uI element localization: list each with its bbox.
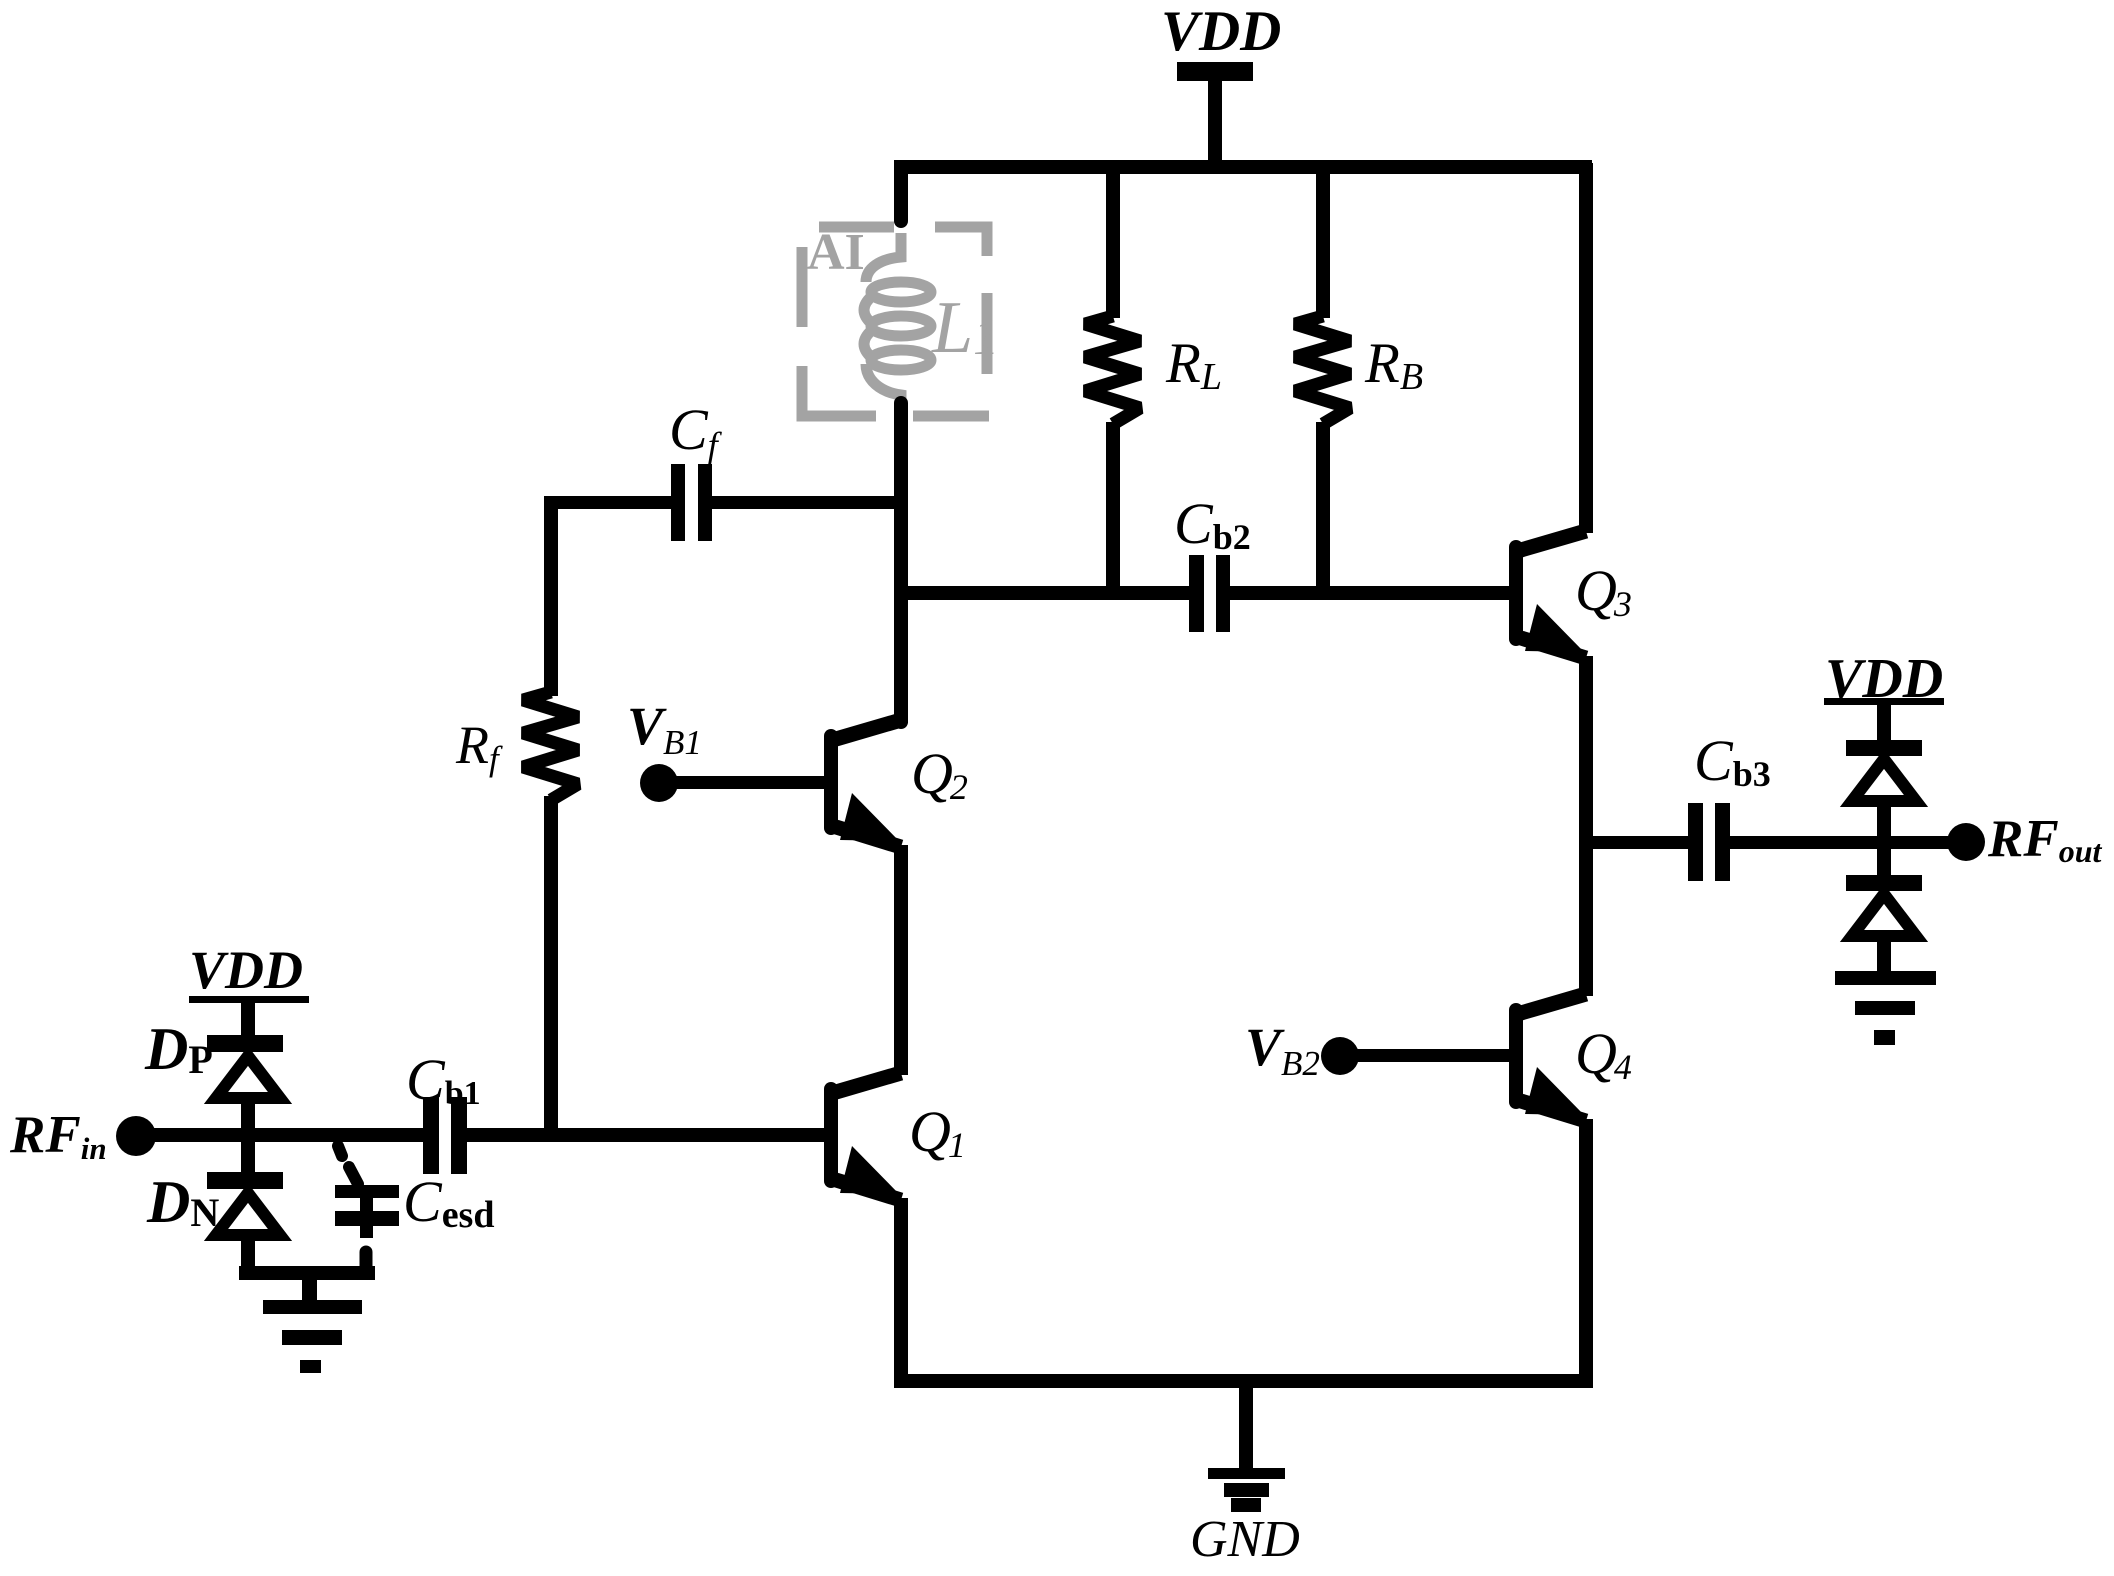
wire Q2 collector up to node A: [894, 593, 908, 723]
diode DP: [207, 1035, 283, 1098]
wire output node to lower diode: [1877, 847, 1891, 879]
capacitor Cb2: [1189, 555, 1230, 632]
wire Cf right to node A: [712, 496, 901, 509]
ground (input): [263, 1300, 362, 1373]
power symbol VDD (T-bar): [1177, 62, 1253, 166]
wire DN to ground wire: [241, 1232, 255, 1272]
wire rail to RB: [1316, 163, 1330, 318]
wire Q3 collector to rail: [1579, 163, 1593, 533]
wire VDD to diode DP: [241, 1003, 255, 1037]
wire Cf junction down to Rf: [544, 496, 558, 696]
wire Cb3 to RFout: [1730, 836, 1966, 849]
wire RFin to Cb1: [151, 1128, 424, 1142]
wire node A to Cb2: [894, 586, 1189, 600]
svg-text:GND: GND: [1190, 1511, 1300, 1568]
wire VB2 to Q4 base: [1353, 1049, 1516, 1062]
wire diode to output node: [1877, 801, 1891, 841]
capacitor Cb1: [423, 1097, 467, 1174]
node VB2 dot: [1321, 1037, 1359, 1075]
wire top rail: [894, 160, 1592, 174]
wire bottom rail: [894, 1374, 1593, 1388]
inductor L1 (gray, optional block): [864, 233, 931, 400]
transistor Q4: [1509, 1003, 1523, 1109]
ground GND: [1208, 1468, 1285, 1512]
wire to ground symbol: [302, 1280, 317, 1302]
wire Rf bottom to input node: [544, 796, 558, 1141]
wire input node to DN: [241, 1140, 255, 1176]
ground (output): [1835, 971, 1936, 1045]
dashed box around L1: [802, 227, 989, 416]
wire RB to mid node: [1316, 422, 1330, 593]
wire Q3 emitter down to Q4 collector: [1579, 656, 1593, 996]
wire Cf left: [544, 496, 671, 509]
node RFout dot: [1947, 823, 1985, 861]
transistor Q1: [824, 1082, 838, 1188]
wire Q1 emitter to bottom rail: [894, 1198, 908, 1384]
wire DP to input node: [241, 1098, 255, 1132]
svg-text:VDD: VDD: [189, 940, 303, 1000]
resistor RB: [1295, 316, 1350, 424]
wire Cb1 to Q1 base: [467, 1128, 831, 1142]
transistor Q2: [824, 729, 838, 835]
power symbol VDD underline (output): [1824, 698, 1944, 705]
wire rail to ground: [1239, 1388, 1253, 1470]
wire diode to ground: [1877, 933, 1891, 974]
resistor RL: [1085, 316, 1140, 424]
wire Q4 emitter to bottom rail: [1579, 1119, 1593, 1384]
wire rail to RL: [1106, 163, 1120, 318]
capacitor Cesd (dashed branch): [335, 1146, 399, 1271]
wire Cb2 to Q3 base: [1230, 586, 1516, 600]
wire ground horizontal: [239, 1266, 375, 1280]
wire rail to L1 top: [894, 170, 908, 221]
node VB1 dot: [640, 764, 678, 802]
capacitor Cb3: [1688, 803, 1730, 881]
power symbol VDD underline (input): [189, 996, 309, 1003]
wire RL to mid node: [1106, 422, 1120, 593]
diode DN: [207, 1172, 283, 1235]
wire VB1 to Q2 base: [672, 776, 831, 789]
diode (output, to VDD): [1846, 740, 1922, 801]
transistor Q3: [1509, 540, 1523, 646]
diode (output, to GND): [1846, 875, 1922, 936]
resistor Rf: [523, 692, 578, 800]
svg-text:VDD: VDD: [1161, 0, 1281, 63]
node RFin dot: [116, 1116, 156, 1156]
svg-text:AI: AI: [807, 224, 865, 281]
wire Q3 emitter to Cb3: [1586, 836, 1688, 849]
wire VDD to diode: [1877, 703, 1891, 743]
wire Q2 emitter to Q1 collector: [894, 845, 908, 1075]
capacitor Cf: [671, 464, 712, 541]
wire L1 bottom to node A: [894, 403, 908, 722]
